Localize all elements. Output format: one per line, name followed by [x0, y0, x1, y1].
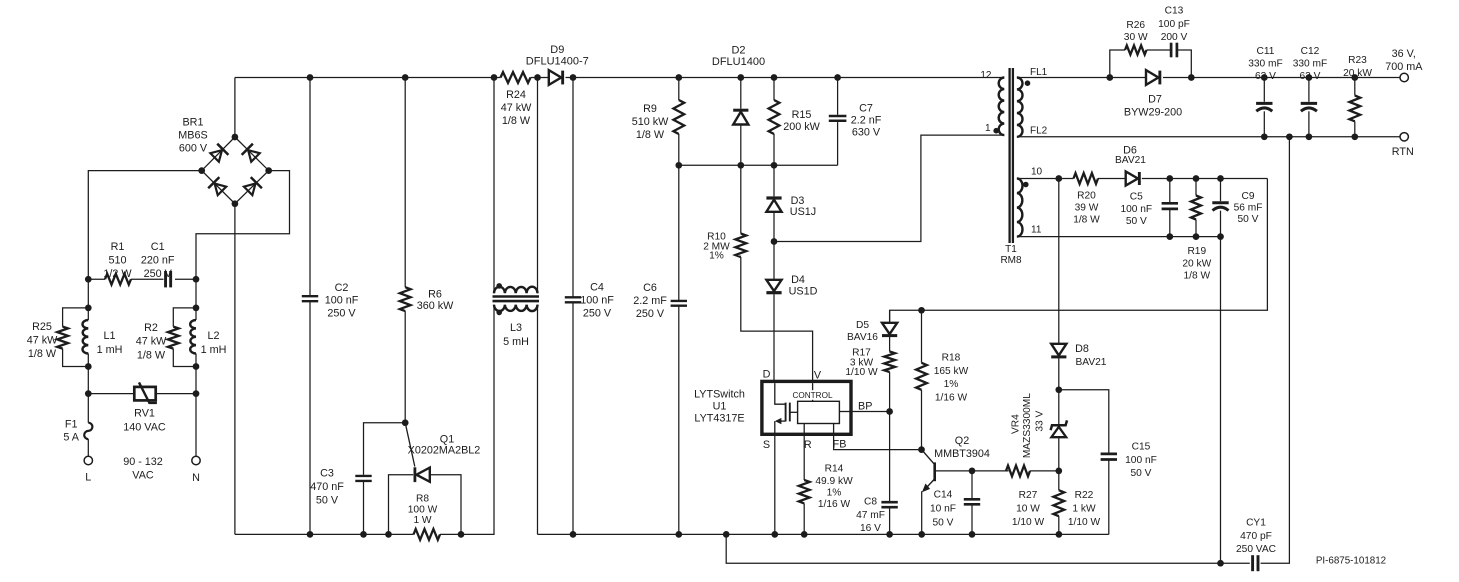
svg-text:L3: L3 [510, 322, 522, 334]
capacitor C1 220nF 250V [141, 241, 196, 288]
wire: L2 bottom to RV1 row [195, 367, 197, 394]
svg-text:D9: D9 [550, 44, 564, 56]
capacitor C5 100nF 50V [1120, 179, 1178, 237]
svg-text:R1: R1 [111, 241, 125, 253]
svg-text:1 kW: 1 kW [1072, 504, 1096, 515]
svg-text:1/8 W: 1/8 W [28, 348, 57, 360]
svg-text:63 V: 63 V [1255, 71, 1276, 82]
node: bus R14 [801, 531, 808, 538]
svg-text:50 V: 50 V [1131, 468, 1152, 479]
svg-text:330 mF: 330 mF [1293, 59, 1328, 70]
node: Q2 base / C14 node [969, 468, 976, 475]
svg-text:BR1: BR1 [182, 116, 203, 128]
svg-text:CONTROL: CONTROL [792, 391, 832, 400]
node: RV1 left [85, 390, 92, 397]
wire: L1 bottom to RV1 row [87, 367, 89, 394]
thyristor Q1 X0202MA2BL2 [389, 423, 481, 535]
svg-text:10: 10 [1031, 166, 1043, 177]
svg-text:2.2 nF: 2.2 nF [851, 115, 882, 127]
svg-text:630 V: 630 V [852, 126, 881, 138]
svg-text:D: D [763, 368, 771, 380]
inductor L3 5mH [493, 78, 540, 535]
svg-text:RTN: RTN [1392, 146, 1414, 158]
svg-text:200 kW: 200 kW [783, 121, 820, 133]
svg-text:165 kW: 165 kW [934, 366, 969, 377]
svg-text:R26: R26 [1126, 20, 1145, 31]
resistor R6 360kW [400, 78, 454, 423]
wire: FL1 rail [1017, 77, 1110, 79]
svg-text:RV1: RV1 [134, 407, 155, 419]
node: bus C2 [307, 531, 314, 538]
svg-text:C7: C7 [859, 102, 873, 114]
terminal output +36V [1385, 48, 1423, 81]
svg-text:C8: C8 [864, 497, 877, 508]
node: Q1 gate node [402, 419, 409, 426]
wire: pin10 node down to D8 [1058, 179, 1060, 344]
svg-text:R24: R24 [506, 89, 526, 101]
svg-text:D4: D4 [791, 274, 805, 286]
wire: left column R1 row to L1 [87, 279, 89, 308]
svg-text:56 mF: 56 mF [1234, 203, 1263, 214]
node: L1 bottom [85, 363, 92, 370]
svg-text:R2: R2 [144, 322, 158, 334]
inductor L1 1mH [82, 308, 122, 367]
svg-text:1/10 W: 1/10 W [1068, 517, 1101, 528]
svg-text:BP: BP [858, 400, 872, 412]
wire: FB pin to Q2 [834, 434, 922, 449]
node: rail D2 junction [737, 74, 744, 81]
svg-text:C1: C1 [151, 241, 165, 253]
svg-text:D2: D2 [731, 44, 745, 56]
wire: bridge right AC node to filter [196, 171, 290, 280]
diode D4 US1D [766, 242, 817, 382]
diode D8 BAV21 [1051, 343, 1107, 390]
transformer T1 RM8 [980, 67, 1047, 266]
svg-text:F1: F1 [65, 418, 78, 430]
resistor R20 39W 1/8W [1073, 173, 1126, 225]
svg-text:360 kW: 360 kW [417, 300, 454, 312]
wire: output + rail [1191, 77, 1400, 79]
svg-text:1 mH: 1 mH [97, 344, 123, 356]
svg-text:510: 510 [108, 254, 126, 266]
svg-text:D7: D7 [1148, 94, 1162, 106]
resistor R2 47kW 1/8W (parallel L2) [136, 308, 196, 367]
text: PI-6875-101812 [1316, 555, 1386, 566]
svg-text:63 V: 63 V [1300, 71, 1321, 82]
svg-text:100 nF: 100 nF [325, 295, 359, 307]
node: L2 bottom [193, 363, 200, 370]
svg-text:10 nF: 10 nF [930, 504, 956, 515]
svg-text:R15: R15 [792, 109, 812, 121]
resistor R10 2MW 1% [703, 165, 812, 381]
svg-text:US1J: US1J [790, 206, 816, 218]
svg-text:47 kW: 47 kW [136, 336, 167, 348]
bridge rectifier BR1 MB6S 600V [178, 116, 272, 207]
svg-text:S: S [763, 439, 770, 451]
svg-text:100 nF: 100 nF [1125, 455, 1157, 466]
wire: bridge left AC node to filter [88, 171, 201, 280]
svg-text:1%: 1% [709, 250, 724, 261]
resistor R17 3kW 1/10W [845, 348, 895, 412]
svg-text:L: L [85, 471, 91, 483]
svg-text:FL2: FL2 [1030, 126, 1048, 137]
capacitor C3 470nF 50V [310, 423, 405, 535]
svg-text:PI-6875-101812: PI-6875-101812 [1316, 555, 1386, 566]
svg-text:250 V: 250 V [144, 268, 173, 280]
varistor RV1 140VAC [88, 382, 196, 433]
svg-text:R14: R14 [825, 464, 844, 475]
node: L2 top [193, 305, 200, 312]
svg-text:90 - 132: 90 - 132 [123, 456, 163, 468]
wire: pin 11 line [1017, 236, 1221, 238]
node: out rail C11 [1261, 74, 1268, 81]
capacitor C14 10nF 50V [930, 471, 980, 535]
wire: S pin to bus [774, 434, 776, 534]
zener diode VR4 MAZS3300ML 33V [1011, 390, 1068, 471]
node: bus Q2 emitter [918, 531, 925, 538]
svg-text:1/2 W: 1/2 W [103, 268, 132, 280]
svg-text:BAV21: BAV21 [1115, 155, 1146, 166]
capacitor CY1 470pF 250VAC [1236, 518, 1276, 572]
resistor R9 510kW 1/8W [632, 78, 687, 535]
svg-text:1/8 W: 1/8 W [1073, 214, 1100, 225]
svg-text:D5: D5 [856, 320, 869, 331]
svg-text:140 VAC: 140 VAC [123, 421, 166, 433]
svg-text:CY1: CY1 [1246, 518, 1266, 529]
node: p11 C5 [1166, 233, 1173, 240]
diode D2 DFLU1400 [712, 44, 765, 165]
wire: bias line D5 to C9 box [890, 179, 1268, 323]
capacitor C7 2.2nF 630V [829, 78, 882, 166]
capacitor C13 100pF 200V [1158, 6, 1191, 78]
svg-text:470 nF: 470 nF [310, 481, 344, 493]
svg-text:50 V: 50 V [1238, 214, 1259, 225]
resistor R18 165kW 1% 1/16W [916, 310, 969, 449]
svg-text:L1: L1 [103, 330, 115, 342]
node: rail C4 junction [570, 74, 577, 81]
node: L1 top [85, 305, 92, 312]
svg-text:FL1: FL1 [1030, 67, 1048, 78]
svg-text:1/8 W: 1/8 W [1183, 271, 1210, 282]
svg-text:LYT4317E: LYT4317E [694, 412, 744, 424]
resistor R22 1kW 1/10W [1053, 471, 1100, 535]
svg-text:250 V: 250 V [583, 307, 612, 319]
svg-text:1%: 1% [944, 379, 959, 390]
svg-text:100 W: 100 W [408, 505, 438, 516]
wire: top rail bridge to R24 [235, 77, 501, 79]
svg-text:5 mH: 5 mH [503, 336, 529, 348]
svg-text:1/10 W: 1/10 W [845, 367, 878, 378]
svg-text:T1: T1 [1005, 244, 1017, 255]
capacitor C9 56mF 50V [1212, 179, 1262, 237]
svg-text:47 kW: 47 kW [501, 102, 532, 114]
diode D9 DFLU1400-7 [526, 44, 589, 85]
diode D7 BYW29-200 [1110, 70, 1192, 118]
svg-text:49.9 kW: 49.9 kW [815, 476, 853, 487]
node: bus U1 source [771, 531, 778, 538]
node: bus C8 [886, 531, 893, 538]
node: FL1 D7 anode branch [1106, 74, 1113, 81]
svg-text:1/16 W: 1/16 W [818, 499, 851, 510]
op-amp U1 LYTSwitch LYT4317E control IC [694, 368, 872, 451]
svg-text:R23: R23 [1348, 55, 1367, 66]
svg-text:16 V: 16 V [860, 523, 881, 534]
capacitor C12 330mF 63V [1293, 46, 1328, 137]
node: R1 row right junction [193, 276, 200, 283]
wire: bottom rail [726, 137, 1289, 563]
svg-text:LYTSwitch: LYTSwitch [694, 388, 745, 400]
node: bus C14 [969, 531, 976, 538]
node: RV1 right [193, 390, 200, 397]
wire: primary bus left segment [235, 305, 494, 534]
node: rtn C12 [1306, 133, 1313, 140]
node: rtn R23 [1351, 133, 1358, 140]
svg-text:20 kW: 20 kW [1343, 68, 1372, 79]
svg-text:R27: R27 [1019, 490, 1038, 501]
svg-text:BAV21: BAV21 [1076, 357, 1107, 368]
node: rail C2 junction [307, 74, 314, 81]
svg-text:BAV16: BAV16 [847, 332, 878, 343]
svg-text:U1: U1 [713, 400, 727, 412]
wire: N column to terminal [195, 394, 197, 457]
svg-text:250 V: 250 V [636, 308, 665, 320]
node: bottom rail C9 column [1217, 560, 1224, 567]
svg-text:1: 1 [985, 123, 991, 134]
diode D6 BAV21 [1115, 144, 1267, 185]
terminal L [84, 456, 92, 483]
svg-text:600 V: 600 V [179, 142, 208, 154]
node: sec line D2 [737, 162, 744, 169]
resistor R24 47kW 1/8W [501, 72, 549, 127]
capacitor C15 100nF 50V [1059, 390, 1157, 535]
svg-text:C14: C14 [934, 490, 953, 501]
text: input voltage [123, 456, 163, 482]
node: bias line R18 junction [918, 307, 925, 314]
diode D5 BAV16 [847, 310, 897, 351]
node: D7 cathode branch [1188, 74, 1195, 81]
node: out rail C12 [1306, 74, 1313, 81]
node: p10 C5 [1166, 175, 1173, 182]
svg-text:1/8 W: 1/8 W [636, 129, 665, 141]
transistor Q2 MMBT3904 [922, 435, 1009, 535]
node: VR4-R22-R27 node [1055, 468, 1062, 475]
svg-text:BYW29-200: BYW29-200 [1124, 106, 1182, 118]
node: bus CY1 drop [723, 531, 730, 538]
wire: BP pin wire [851, 411, 890, 413]
svg-text:50 V: 50 V [933, 518, 954, 529]
svg-text:11: 11 [1031, 225, 1042, 236]
node: BP node [886, 408, 893, 415]
svg-text:50 V: 50 V [316, 494, 339, 506]
svg-text:R: R [804, 439, 812, 451]
diode D3 US1J [766, 165, 816, 241]
svg-text:N: N [192, 472, 200, 484]
capacitor C2 100nF 250V [302, 78, 359, 535]
resistor R14 49.9kW 1% 1/16W [799, 434, 853, 534]
terminal output RTN [1392, 133, 1414, 158]
resistor R27 10W 1/10W [1006, 466, 1059, 529]
svg-text:C11: C11 [1257, 46, 1275, 57]
terminal N [192, 456, 200, 484]
svg-text:R25: R25 [32, 321, 52, 333]
node: p11 C9 corner [1217, 233, 1224, 240]
wire: node to T1 pin 1 [774, 135, 1004, 241]
wire: N column R1 row to L2 [195, 279, 197, 308]
node: rail R6 junction [402, 74, 409, 81]
svg-text:MMBT3904: MMBT3904 [934, 448, 990, 460]
resistor R23 20kW [1343, 55, 1372, 137]
svg-text:DFLU1400-7: DFLU1400-7 [526, 56, 589, 68]
svg-text:R19: R19 [1187, 246, 1206, 257]
node: bus C4 [570, 531, 577, 538]
resistor R25 47kW 1/8W (parallel L1) [27, 308, 89, 367]
node: rail L3 right junction [534, 74, 541, 81]
svg-text:R22: R22 [1075, 490, 1094, 501]
svg-text:V: V [814, 369, 822, 381]
node: pin10 D8 branch [1055, 175, 1062, 182]
capacitor C4 100nF 250V [565, 78, 614, 535]
node: FB/R18/Q2 collector node [918, 446, 925, 453]
svg-text:C13: C13 [1165, 6, 1184, 17]
fuse F1 5A [63, 394, 92, 457]
svg-text:MAZS3300ML: MAZS3300ML [1022, 393, 1033, 458]
svg-text:C9: C9 [1241, 191, 1254, 202]
svg-text:C5: C5 [1130, 192, 1143, 203]
svg-text:470 pF: 470 pF [1240, 531, 1272, 542]
capacitor C6 2.2mF 250V [633, 282, 667, 320]
svg-text:510 kW: 510 kW [632, 116, 669, 128]
node: bus Q1 cathode [385, 531, 392, 538]
svg-text:1%: 1% [827, 487, 842, 498]
wire: C9 node down to bottom rail [1220, 237, 1222, 564]
svg-text:R20: R20 [1077, 190, 1096, 201]
resistor R1 510 1/2W [88, 241, 163, 285]
svg-text:10 W: 10 W [1016, 504, 1040, 515]
svg-text:RM8: RM8 [1000, 255, 1022, 266]
svg-text:D8: D8 [1075, 343, 1089, 355]
svg-text:20 kW: 20 kW [1182, 258, 1211, 269]
svg-text:DFLU1400: DFLU1400 [712, 56, 765, 68]
svg-text:2.2 mF: 2.2 mF [633, 295, 667, 307]
resistor R8 100W 1W [408, 494, 440, 540]
resistor R19 20kW 1/8W [1182, 179, 1211, 282]
node: p10 C9 [1217, 175, 1224, 182]
svg-text:R9: R9 [643, 103, 657, 115]
node: rtn CY1 [1286, 133, 1293, 140]
svg-text:C4: C4 [590, 281, 604, 293]
node: p10 R19 [1193, 175, 1200, 182]
svg-text:200 V: 200 V [1161, 32, 1188, 43]
svg-text:1 mH: 1 mH [201, 344, 227, 356]
wire: primary bus mid segment [538, 533, 1109, 535]
svg-text:39 W: 39 W [1075, 202, 1099, 213]
svg-text:C3: C3 [320, 467, 334, 479]
wire: secondary line R9-C7 [679, 164, 838, 166]
svg-text:VAC: VAC [132, 469, 154, 481]
node: D8-VR4 / C15 node [1055, 386, 1062, 393]
wire: top rail D9 to T1 pin 12 [566, 77, 1005, 79]
svg-text:1 W: 1 W [413, 515, 431, 526]
svg-text:12: 12 [980, 70, 992, 81]
svg-text:1/16 W: 1/16 W [935, 393, 968, 404]
svg-text:47 kW: 47 kW [27, 334, 58, 346]
node: bus Q1 anode [458, 531, 465, 538]
svg-text:C12: C12 [1301, 46, 1320, 57]
node: D3-D4 node to T1 pin1 [771, 238, 778, 245]
svg-text:30 W: 30 W [1124, 32, 1148, 43]
svg-text:100 nF: 100 nF [1120, 204, 1152, 215]
svg-text:330 mF: 330 mF [1248, 59, 1283, 70]
svg-text:US1D: US1D [789, 285, 818, 297]
node: p11 R19 [1193, 233, 1200, 240]
node: bus R22 [1056, 531, 1063, 538]
wire: bridge + output to top rail [234, 78, 236, 138]
svg-text:33 V: 33 V [1035, 410, 1046, 431]
resistor R26 30W (snubber) [1110, 20, 1171, 78]
svg-text:250 VAC: 250 VAC [1236, 544, 1276, 555]
node: bus C6 [675, 531, 682, 538]
svg-text:C2: C2 [335, 282, 349, 294]
svg-text:50 V: 50 V [1126, 216, 1147, 227]
node: rtn C11 [1261, 133, 1268, 140]
node: rail R9 junction [675, 74, 682, 81]
svg-text:R8: R8 [416, 494, 429, 505]
wire: RTN rail [1017, 136, 1400, 138]
svg-text:220 nF: 220 nF [141, 254, 175, 266]
svg-text:MB6S: MB6S [178, 129, 207, 141]
svg-text:250 V: 250 V [327, 308, 356, 320]
node: rail L3 left junction [491, 74, 498, 81]
svg-text:C15: C15 [1132, 442, 1151, 453]
svg-text:1/8 W: 1/8 W [502, 115, 531, 127]
node: bus C3 [360, 531, 367, 538]
svg-text:R18: R18 [942, 353, 961, 364]
svg-text:R6: R6 [428, 288, 442, 300]
node: rail C7 junction [834, 74, 841, 81]
svg-text:100 pF: 100 pF [1158, 19, 1190, 30]
wire: pin 10 line [1017, 178, 1074, 180]
resistor R15 200kW [769, 78, 821, 166]
svg-text:700 mA: 700 mA [1385, 61, 1423, 73]
svg-text:C6: C6 [643, 282, 657, 294]
svg-text:Q2: Q2 [955, 435, 969, 447]
capacitor C11 330mF 63V [1248, 46, 1283, 137]
svg-text:36 V,: 36 V, [1392, 48, 1416, 60]
svg-text:100 nF: 100 nF [580, 294, 614, 306]
svg-text:1/10 W: 1/10 W [1012, 517, 1045, 528]
svg-text:FB: FB [833, 438, 847, 450]
node: out rail R23 [1351, 74, 1358, 81]
svg-text:X0202MA2BL2: X0202MA2BL2 [408, 444, 481, 456]
svg-text:L2: L2 [207, 330, 219, 342]
node: sec line R15 [771, 162, 778, 169]
svg-text:VR4: VR4 [1011, 414, 1022, 434]
node: rail R15 junction [771, 74, 778, 81]
inductor L2 1mH [190, 308, 226, 367]
svg-text:1/8 W: 1/8 W [137, 349, 166, 361]
wire: bridge - output down to bus [234, 204, 236, 535]
node: R1 row left junction [85, 276, 92, 283]
node: sec line R9 [675, 162, 682, 169]
svg-text:47 mF: 47 mF [856, 510, 885, 521]
capacitor C8 47mF 16V [856, 412, 898, 535]
svg-text:5 A: 5 A [63, 431, 79, 443]
